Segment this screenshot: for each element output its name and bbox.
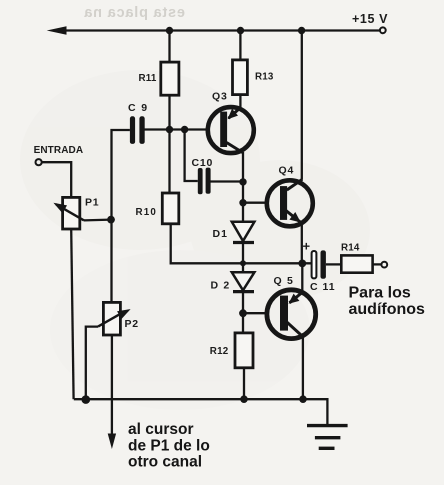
terminal output — [381, 262, 387, 268]
wire: Q5 collector to ground line — [302, 337, 304, 400]
wire: C11 to R14 — [326, 263, 341, 265]
capacitor C10 — [198, 168, 211, 195]
svg-text:+: + — [303, 239, 311, 254]
diode D1 — [232, 222, 255, 243]
wire: C10 to node — [210, 180, 243, 182]
wire: R11 to base node — [168, 95, 170, 129]
node C10-collector — [239, 178, 246, 185]
wire: Q4 base — [243, 202, 267, 204]
capacitor C11 — [312, 250, 326, 278]
wire: D2 to Q5 base node — [242, 293, 244, 333]
node P1 wiper junction — [107, 216, 115, 224]
wire: P2 bottom through ground line to arrow — [111, 335, 113, 436]
node Q5 base — [239, 309, 247, 317]
svg-text:D1: D1 — [213, 228, 228, 240]
wire: R13 to Q3 emitter — [239, 95, 241, 108]
svg-text:P1: P1 — [85, 197, 99, 209]
wire: rail left arrow — [47, 26, 67, 35]
svg-text:al cursor: al cursor — [128, 421, 193, 438]
wire: bottom ground line — [74, 399, 328, 424]
resistor R13 — [233, 60, 248, 95]
svg-text:Q 5: Q 5 — [274, 275, 295, 287]
node diode midpoint-output — [240, 260, 246, 266]
svg-text:R13: R13 — [255, 72, 274, 83]
svg-text:esta placa na: esta placa na — [83, 5, 185, 21]
svg-text:Para los: Para los — [349, 285, 411, 302]
wire: rail to R11 — [168, 31, 170, 63]
arrow to other channel — [108, 434, 116, 450]
svg-text:+15 V: +15 V — [352, 12, 388, 26]
wire: output bootstrap line from R10 — [171, 224, 312, 263]
node Q4 base — [239, 199, 246, 206]
node rail-Q4 collector — [298, 27, 305, 34]
node R12-ground — [240, 395, 248, 403]
resistor R12 — [235, 333, 253, 368]
transistor Q4 — [267, 179, 313, 226]
wire: output node to Q5 emitter — [301, 263, 303, 292]
node base-R11R10 — [166, 126, 173, 133]
node rail-R11 — [166, 27, 173, 34]
svg-text:R11: R11 — [139, 73, 157, 84]
capacitor C9 — [130, 116, 145, 144]
svg-text:Q3: Q3 — [212, 91, 228, 103]
terminal +15V — [380, 27, 386, 33]
svg-text:Q4: Q4 — [279, 165, 295, 177]
node P2 wiper-ground — [82, 395, 91, 404]
wire: Q3 collector chain down — [242, 152, 244, 222]
resistor R10 — [162, 193, 179, 224]
wire: input to P1 top — [42, 162, 71, 197]
svg-text:otro canal: otro canal — [128, 454, 202, 471]
svg-text:R10: R10 — [136, 207, 158, 218]
terminal input — [36, 159, 42, 165]
transistor Q3 — [208, 107, 254, 153]
resistor R14 — [341, 255, 372, 272]
svg-text:ENTRADA: ENTRADA — [34, 145, 84, 156]
wire: R12 to ground line — [243, 368, 245, 399]
svg-text:C10: C10 — [192, 157, 214, 169]
wire: Q4 emitter to output node — [301, 223, 303, 263]
svg-text:R14: R14 — [341, 243, 360, 254]
node Q5-ground — [299, 395, 307, 403]
wire: P1 bottom to ground line — [71, 229, 73, 399]
wire: R14 to output terminal — [373, 263, 382, 265]
node base-C10 branch — [181, 126, 188, 133]
wire: Q4 collector to rail — [301, 31, 303, 180]
svg-text:de P1 de lo: de P1 de lo — [128, 438, 210, 455]
wire: R10 top — [168, 130, 170, 194]
svg-text:C 11: C 11 — [310, 281, 336, 293]
svg-text:audífonos: audífonos — [349, 301, 426, 318]
svg-text:R12: R12 — [210, 346, 229, 357]
wire: Q5 base — [243, 312, 268, 314]
wire: C9 left to vertical — [112, 130, 130, 302]
wire: rail to R13 — [239, 31, 241, 60]
potentiometer P1 — [53, 197, 111, 229]
node rail-R13 — [237, 27, 244, 34]
node output — [298, 260, 306, 268]
svg-text:P2: P2 — [125, 318, 139, 330]
resistor R11 — [161, 62, 179, 95]
wire: +15V top rail — [62, 29, 380, 31]
transistor Q5 — [267, 290, 316, 339]
potentiometer P2 — [86, 302, 131, 399]
ground — [307, 426, 348, 449]
svg-text:C 9: C 9 — [128, 102, 149, 114]
diode D2 — [232, 272, 255, 291]
wire: C10 branch — [185, 130, 198, 182]
svg-text:D 2: D 2 — [211, 280, 231, 292]
wire: D1 to D2 — [242, 244, 244, 273]
wire: Q3 base — [144, 128, 208, 130]
